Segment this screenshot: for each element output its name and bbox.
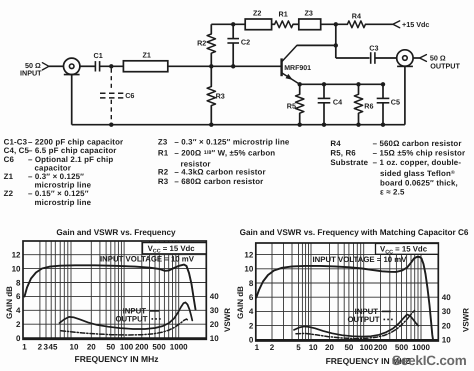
svg-text:– 0.15″ × 0.125″: – 0.15″ × 0.125″ xyxy=(28,189,89,198)
svg-text:1: 1 xyxy=(22,342,27,351)
svg-text:500: 500 xyxy=(152,342,166,351)
svg-text:Z2: Z2 xyxy=(4,189,14,198)
svg-text:2: 2 xyxy=(249,321,254,330)
svg-text:R1: R1 xyxy=(158,148,169,157)
svg-text:1000: 1000 xyxy=(412,343,430,352)
svg-text:50: 50 xyxy=(344,343,353,352)
svg-text:ε ≈ 2.5: ε ≈ 2.5 xyxy=(380,188,405,197)
svg-text:Z1: Z1 xyxy=(4,172,14,181)
svg-text:SeekIC.com: SeekIC.com xyxy=(392,353,467,368)
svg-text:10: 10 xyxy=(12,264,21,273)
svg-text:microstrip line: microstrip line xyxy=(35,198,92,207)
svg-text:C4, C5: C4, C5 xyxy=(4,146,30,155)
svg-text:2: 2 xyxy=(38,342,43,351)
svg-text:R3: R3 xyxy=(216,92,225,101)
svg-text:2: 2 xyxy=(270,343,275,352)
svg-text:– 200Ω 1/8″ W, ±5% carbon: – 200Ω 1/8″ W, ±5% carbon xyxy=(174,148,275,157)
svg-text:sided glass Teflon®: sided glass Teflon® xyxy=(380,169,455,178)
svg-text:1: 1 xyxy=(255,343,260,352)
svg-text:– 6.5 pF chip capacitor: – 6.5 pF chip capacitor xyxy=(28,146,117,155)
svg-text:20: 20 xyxy=(87,342,96,351)
svg-text:40: 40 xyxy=(210,292,219,301)
svg-text:GAIN dB: GAIN dB xyxy=(236,286,245,319)
svg-text:C2: C2 xyxy=(241,37,250,46)
svg-text:C3: C3 xyxy=(369,44,378,53)
svg-text:R4: R4 xyxy=(352,11,361,20)
svg-text:40: 40 xyxy=(442,293,451,302)
svg-text:OUTPUT: OUTPUT xyxy=(430,61,460,70)
svg-text:20: 20 xyxy=(210,320,219,329)
svg-text:INPUT: INPUT xyxy=(20,69,42,78)
svg-text:R5, R6: R5, R6 xyxy=(330,149,356,158)
svg-text:C5: C5 xyxy=(391,98,400,107)
svg-text:VSWR: VSWR xyxy=(462,308,471,332)
svg-text:Substrate: Substrate xyxy=(330,158,368,167)
svg-text:Z2: Z2 xyxy=(253,9,261,18)
svg-text:– 15Ω ±5% chip resistor: – 15Ω ±5% chip resistor xyxy=(373,149,466,158)
svg-text:R1: R1 xyxy=(279,10,288,19)
svg-text:30: 30 xyxy=(442,307,451,316)
svg-text:C4: C4 xyxy=(333,98,342,107)
svg-text:MRF901: MRF901 xyxy=(284,65,311,72)
svg-text:5: 5 xyxy=(296,343,301,352)
svg-text:Gain and VSWR vs. Frequency: Gain and VSWR vs. Frequency xyxy=(56,228,176,237)
svg-text:R4: R4 xyxy=(330,139,341,148)
svg-text:0: 0 xyxy=(249,336,254,345)
svg-text:R5: R5 xyxy=(287,101,296,110)
svg-text:board 0.0625″ thick,: board 0.0625″ thick, xyxy=(380,179,458,188)
svg-text:– 4.3kΩ carbon resistor: – 4.3kΩ carbon resistor xyxy=(174,168,265,177)
svg-text:8: 8 xyxy=(16,278,21,287)
svg-text:Z1: Z1 xyxy=(143,50,151,59)
svg-text:50: 50 xyxy=(106,342,115,351)
svg-text:– 1 oz. copper, double-: – 1 oz. copper, double- xyxy=(373,158,462,167)
svg-text:12: 12 xyxy=(12,251,21,260)
svg-text:6: 6 xyxy=(16,292,21,301)
svg-text:200: 200 xyxy=(135,342,149,351)
svg-text:20: 20 xyxy=(442,321,451,330)
svg-text:C6: C6 xyxy=(4,155,15,164)
svg-text:OUTPUT: OUTPUT xyxy=(347,315,379,324)
svg-text:– 0.3″ × 0.125″ microstrip lin: – 0.3″ × 0.125″ microstrip line xyxy=(174,137,290,146)
svg-text:10: 10 xyxy=(442,336,451,345)
svg-text:4: 4 xyxy=(16,306,21,315)
svg-text:10: 10 xyxy=(244,265,253,274)
svg-text:20: 20 xyxy=(325,343,334,352)
svg-text:30: 30 xyxy=(210,306,219,315)
svg-text:R6: R6 xyxy=(364,101,373,110)
svg-text:Gain and VSWR vs. Frequency wi: Gain and VSWR vs. Frequency with Matchin… xyxy=(240,228,469,237)
svg-text:Z3: Z3 xyxy=(305,9,313,18)
svg-text:10: 10 xyxy=(210,334,219,343)
svg-text:8: 8 xyxy=(249,279,254,288)
svg-text:Z3: Z3 xyxy=(158,137,168,146)
svg-text:microstrip line: microstrip line xyxy=(35,180,92,189)
svg-text:500: 500 xyxy=(395,343,409,352)
svg-text:C1: C1 xyxy=(94,51,103,60)
svg-text:200: 200 xyxy=(374,343,388,352)
svg-text:5: 5 xyxy=(53,342,58,351)
svg-text:FREQUENCY IN MHz: FREQUENCY IN MHz xyxy=(75,354,159,364)
svg-text:GAIN dB: GAIN dB xyxy=(5,286,14,319)
svg-text:OUTPUT: OUTPUT xyxy=(115,315,147,324)
svg-text:R2: R2 xyxy=(197,38,206,47)
svg-text:R2: R2 xyxy=(158,168,169,177)
svg-text:VSWR: VSWR xyxy=(223,308,232,332)
svg-text:100: 100 xyxy=(360,343,374,352)
svg-text:12: 12 xyxy=(244,250,253,259)
svg-text:– 680Ω carbon resistor: – 680Ω carbon resistor xyxy=(174,177,263,186)
svg-text:R3: R3 xyxy=(158,177,169,186)
svg-text:1000: 1000 xyxy=(170,342,188,351)
svg-text:+15 Vdc: +15 Vdc xyxy=(402,20,429,29)
svg-text:0: 0 xyxy=(16,334,21,343)
svg-text:C6: C6 xyxy=(125,91,134,100)
svg-text:INPUT VOLTAGE = 10 mV: INPUT VOLTAGE = 10 mV xyxy=(100,255,195,264)
svg-text:– 560Ω carbon resistor: – 560Ω carbon resistor xyxy=(373,139,462,148)
svg-text:10: 10 xyxy=(309,343,318,352)
svg-text:2: 2 xyxy=(16,320,21,329)
svg-text:INPUT VOLTAGE = 10 mV: INPUT VOLTAGE = 10 mV xyxy=(313,255,408,264)
svg-text:6: 6 xyxy=(249,293,254,302)
svg-text:10: 10 xyxy=(70,342,79,351)
svg-text:100: 100 xyxy=(120,342,134,351)
svg-text:4: 4 xyxy=(249,307,254,316)
